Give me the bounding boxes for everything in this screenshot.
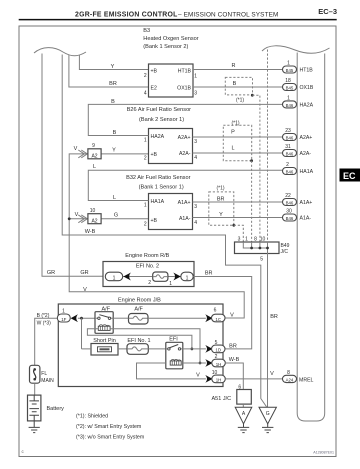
left harness break (wavy) <box>34 48 86 56</box>
svg-text:10: 10 <box>90 208 96 214</box>
svg-text:E2: E2 <box>151 86 157 92</box>
svg-text:1: 1 <box>144 138 147 144</box>
svg-text:MREL: MREL <box>299 377 314 383</box>
svg-text:BR: BR <box>217 196 225 202</box>
node junction V branch <box>68 217 71 220</box>
svg-text:1H: 1H <box>216 362 222 367</box>
svg-text:4: 4 <box>194 220 197 226</box>
svg-text:HA1A: HA1A <box>151 199 165 205</box>
svg-text:6: 6 <box>214 307 217 313</box>
wire EFI coil right to 1H pin2 <box>183 362 206 364</box>
svg-text:A2A+: A2A+ <box>300 135 313 141</box>
svg-text:HT1B: HT1B <box>300 68 314 74</box>
svg-text:B32 Air Fuel Ratio Sensor: B32 Air Fuel Ratio Sensor <box>126 175 190 181</box>
wire A/F fuse to 1C <box>148 317 206 319</box>
svg-text:– EMISSION CONTROL SYSTEM: – EMISSION CONTROL SYSTEM <box>178 12 278 19</box>
wire B OX1B to ECM <box>193 86 283 88</box>
EFI relay switch stubs <box>166 348 183 350</box>
svg-text:Engine Room R/B: Engine Room R/B <box>125 253 169 259</box>
svg-text:B46: B46 <box>286 200 294 205</box>
wire row2 relay to 1D <box>183 348 206 350</box>
fuse EFI No.1 <box>127 344 148 355</box>
sensor B26 box <box>149 129 193 164</box>
wire A/F coil left to row2 junction <box>87 329 191 349</box>
A/F relay switch stubs <box>95 317 113 319</box>
EFI relay coil <box>170 359 181 365</box>
wire A/F coil right to W-B node <box>110 329 200 363</box>
svg-text:10: 10 <box>260 237 266 243</box>
svg-text:8: 8 <box>254 237 257 243</box>
svg-text:A2A+: A2A+ <box>178 135 191 141</box>
J/B connector 1D <box>212 340 226 353</box>
fuse A/F <box>129 314 149 325</box>
svg-text:+B: +B <box>151 152 158 158</box>
A/F relay switch <box>98 315 111 320</box>
svg-text:HA2A: HA2A <box>300 102 314 108</box>
svg-text:B3: B3 <box>143 28 150 34</box>
connector A2 pin 9 <box>88 143 101 159</box>
svg-text:GR: GR <box>80 270 88 276</box>
svg-text:V: V <box>74 146 78 152</box>
svg-text:1: 1 <box>186 276 189 282</box>
battery feed wire into 1F <box>35 318 58 365</box>
1F terminal arrow <box>71 314 78 322</box>
svg-text:OX1B: OX1B <box>300 85 314 91</box>
svg-text:L: L <box>113 195 116 201</box>
wire L HA1A U-route to ECM <box>88 170 282 200</box>
svg-text:P: P <box>231 129 235 135</box>
svg-text:B45: B45 <box>286 85 294 90</box>
connector B46 pin 23 A2A+ <box>283 128 313 141</box>
svg-text:BR: BR <box>205 271 213 277</box>
svg-text:L: L <box>231 146 234 152</box>
node row2 junction <box>191 348 194 351</box>
svg-text:2: 2 <box>144 222 147 228</box>
EFI relay switch <box>168 345 181 351</box>
connector B45 pin 18 OX1B <box>283 78 314 91</box>
J/C bus node pin10 <box>266 247 269 250</box>
svg-text:GR: GR <box>47 270 55 276</box>
fusible link FL MAIN <box>30 365 40 383</box>
svg-text:B (*2): B (*2) <box>37 313 50 319</box>
wire R HT1B to ECM <box>193 69 283 71</box>
node W-B junction <box>199 362 202 365</box>
svg-text:10: 10 <box>212 370 218 376</box>
connector B46 pin 30 A1A- <box>283 209 312 222</box>
R/B left connector 1 <box>105 272 122 281</box>
svg-text:B46: B46 <box>286 151 294 156</box>
Engine Room J/B box <box>58 304 223 387</box>
svg-text:1H: 1H <box>216 378 222 383</box>
svg-text:Heated Oxgen Sensor: Heated Oxgen Sensor <box>143 36 198 42</box>
svg-text:Short Pin: Short Pin <box>93 338 116 344</box>
svg-text:(Bank 1 Sensor 1): (Bank 1 Sensor 1) <box>139 184 184 190</box>
svg-text:1: 1 <box>245 237 248 243</box>
svg-text:A128087E01: A128087E01 <box>313 451 334 455</box>
svg-text:HT1B: HT1B <box>178 68 192 74</box>
1H pin2 terminal arrow <box>205 359 212 367</box>
J/B connector 1F <box>57 309 70 322</box>
svg-text:BR: BR <box>229 343 237 349</box>
wire EFI coil left loop to 1H pin10 <box>137 363 206 379</box>
connector B45 pin 1 HT1B <box>283 61 314 74</box>
svg-text:MAIN: MAIN <box>41 378 54 384</box>
svg-text:8: 8 <box>287 370 290 376</box>
svg-text:3: 3 <box>238 237 241 243</box>
connector B46 pin 2 HA1A <box>283 162 314 175</box>
svg-text:G: G <box>266 411 270 417</box>
row2 wire segments <box>82 348 128 350</box>
svg-text:A51 J/C: A51 J/C <box>212 396 232 402</box>
wire BR A1A+ to ECM <box>193 201 283 203</box>
svg-text:1: 1 <box>287 95 290 101</box>
connector B46 pin 1 HA2A <box>283 95 314 108</box>
shield box around A2A wires <box>223 125 251 160</box>
svg-text:2: 2 <box>144 156 147 162</box>
wire Y from break to B3 pin +B <box>79 55 148 70</box>
battery ground <box>29 421 40 433</box>
J/B connector 1C <box>212 307 226 322</box>
svg-text:1C: 1C <box>215 317 221 322</box>
svg-text:V: V <box>75 212 79 218</box>
EC side tab <box>340 169 360 182</box>
fuse EFI No.2 <box>153 272 168 281</box>
relay EFI box <box>166 342 183 369</box>
wire V net: from J/B 1C up and across to A2 connectors <box>69 154 244 318</box>
1H pin10 terminal arrow <box>205 375 212 383</box>
svg-text:(*1): (*1) <box>231 121 239 127</box>
shield drain wire to J/C pin 8 <box>252 95 260 242</box>
svg-text:R: R <box>232 63 236 69</box>
wire BR from R/B down to J/B 1D <box>193 277 252 349</box>
svg-text:(Bank 1 Sensor 2): (Bank 1 Sensor 2) <box>143 44 188 50</box>
R/B left terminal arrow <box>123 273 130 281</box>
shield box around A1A wires <box>209 192 234 225</box>
svg-text:4: 4 <box>144 90 147 96</box>
svg-text:J/C: J/C <box>281 249 289 255</box>
svg-text:5: 5 <box>260 257 263 263</box>
B32 shield drain node <box>232 224 235 227</box>
svg-text:A2A-: A2A- <box>179 151 191 157</box>
svg-text:A1A-: A1A- <box>300 216 312 222</box>
svg-text:4: 4 <box>194 155 197 161</box>
svg-text:G: G <box>114 213 118 219</box>
sensor B3 box <box>149 64 194 97</box>
wire BR from break to B3 pin E2 <box>69 55 149 87</box>
svg-text:W-B: W-B <box>229 357 240 363</box>
shield drain node <box>251 94 254 97</box>
svg-text:A2A-: A2A- <box>300 151 312 157</box>
svg-text:3: 3 <box>194 139 197 145</box>
svg-text:V: V <box>230 313 234 319</box>
A/F relay coil <box>98 325 110 331</box>
ground A symbol <box>238 424 249 433</box>
Engine Room R/B box <box>103 262 194 287</box>
svg-text:B: B <box>233 81 237 87</box>
junction connector B49 J/C box <box>235 242 280 254</box>
svg-text:Engine Room J/B: Engine Room J/B <box>118 297 161 303</box>
wire GR vertical from break to Engine Room R/B input <box>42 54 106 277</box>
svg-text:(*3): w/o Smart Entry System: (*3): w/o Smart Entry System <box>76 434 145 440</box>
wire W-B net: from break down, under B32, to right, down to ground G <box>62 55 266 407</box>
svg-text:5: 5 <box>215 340 218 346</box>
svg-text:B46: B46 <box>286 103 294 108</box>
svg-text:9: 9 <box>92 143 95 149</box>
ECM outline box <box>297 53 325 422</box>
svg-text:A1A+: A1A+ <box>178 200 191 206</box>
svg-text:EFI No. 2: EFI No. 2 <box>136 264 159 270</box>
svg-text:Y: Y <box>111 64 115 70</box>
svg-text:(*1): Shielded: (*1): Shielded <box>76 414 108 420</box>
svg-text:(*1): (*1) <box>216 186 224 192</box>
svg-text:+B: +B <box>151 218 158 224</box>
svg-text:3: 3 <box>194 204 197 210</box>
svg-text:1: 1 <box>194 74 197 80</box>
wire FL to battery <box>34 383 36 395</box>
svg-text:+B: +B <box>151 68 158 74</box>
wire V 1H10 to ECM A24 MREL <box>225 378 282 380</box>
svg-text:2: 2 <box>144 73 147 79</box>
wire A51 to ground A <box>242 404 244 407</box>
B32 shield drain to J/C pin 3 <box>234 225 244 242</box>
wire L A2A- to ECM <box>193 152 283 154</box>
wire J/C pin5 to ground G <box>267 254 269 408</box>
svg-text:B46: B46 <box>286 216 294 221</box>
svg-text:A1A+: A1A+ <box>300 200 313 206</box>
svg-text:A/F: A/F <box>134 307 143 313</box>
svg-text:2: 2 <box>286 162 289 168</box>
svg-text:B: B <box>113 130 117 136</box>
svg-text:2GR-FE EMISSION CONTROL: 2GR-FE EMISSION CONTROL <box>75 12 178 19</box>
svg-text:1: 1 <box>62 309 65 315</box>
svg-text:OX1B: OX1B <box>177 86 191 92</box>
ground G symbol <box>262 424 273 433</box>
header rule <box>19 19 337 21</box>
svg-text:31: 31 <box>285 144 291 150</box>
svg-text:2: 2 <box>148 280 151 286</box>
svg-text:V: V <box>196 372 200 378</box>
J/C internal bus <box>243 242 267 254</box>
wire Y A1A- to ECM <box>193 217 283 219</box>
svg-text:A2: A2 <box>91 153 97 159</box>
svg-text:(Bank 2 Sensor 1): (Bank 2 Sensor 1) <box>139 117 184 123</box>
svg-text:1D: 1D <box>215 348 221 353</box>
1D terminal arrow <box>205 345 212 353</box>
B26 shield drain to J/C pin 1 <box>251 161 253 242</box>
svg-text:(*1): (*1) <box>236 98 244 104</box>
wire V branch to A2 pin10 row (B32 +B) <box>69 218 148 220</box>
shield box around OX1B wire <box>225 77 252 95</box>
connector A24 MREL <box>283 370 314 384</box>
svg-text:B26 Air Fuel Ratio Sensor: B26 Air Fuel Ratio Sensor <box>127 107 191 113</box>
wire B HA2A U-route to ECM <box>88 104 282 135</box>
sensor B32 box <box>149 194 193 230</box>
svg-text:B46: B46 <box>286 135 294 140</box>
svg-text:L: L <box>93 164 96 170</box>
svg-text:V: V <box>270 371 274 377</box>
svg-text:1: 1 <box>144 203 147 209</box>
svg-text:A2: A2 <box>91 218 97 224</box>
ground G triangle <box>259 407 276 424</box>
relay A/F box <box>95 312 113 334</box>
ground A triangle <box>235 407 252 424</box>
R/B internal wire <box>120 276 182 278</box>
branch down to row2 <box>81 318 83 349</box>
svg-text:1F: 1F <box>61 317 66 322</box>
svg-text:EC–3: EC–3 <box>318 7 337 16</box>
wire P A2A+ to ECM <box>193 136 283 138</box>
connector chevron before A2 pin10 <box>78 215 87 223</box>
R/B right terminal arrow <box>173 273 181 281</box>
svg-text:FL: FL <box>41 371 47 377</box>
svg-text:(*2): w/ Smart Entry System: (*2): w/ Smart Entry System <box>76 424 142 430</box>
svg-text:EFI No. 1: EFI No. 1 <box>127 338 150 344</box>
wire EFI No.1 fuse to EFI relay <box>148 348 166 350</box>
svg-text:A24: A24 <box>286 377 294 382</box>
connector chevron before A2 pin9 <box>78 150 87 158</box>
J/C bus node pin1 <box>250 247 253 250</box>
svg-text:HA2A: HA2A <box>151 134 165 140</box>
connector B46 pin 31 A2A- <box>283 144 312 157</box>
wire W-B 1H2 to A51 J/C <box>225 363 243 390</box>
wire relay to A/F fuse <box>113 317 128 319</box>
svg-text:Battery: Battery <box>47 406 65 412</box>
battery <box>28 395 41 421</box>
J/B connector 1H pin10 <box>212 370 226 383</box>
svg-text:W-B: W-B <box>85 229 96 235</box>
R/B right connector 1 <box>181 272 193 281</box>
svg-text:B45: B45 <box>286 68 294 73</box>
node 1F branch <box>80 317 83 320</box>
1C terminal arrow <box>205 314 212 322</box>
svg-text:B46: B46 <box>286 169 294 174</box>
svg-text:B: B <box>111 99 115 105</box>
ECM harness break (wavy) <box>262 46 330 54</box>
svg-text:BR: BR <box>270 314 278 320</box>
svg-text:BR: BR <box>109 81 117 87</box>
svg-text:22: 22 <box>285 193 291 199</box>
svg-text:V: V <box>83 287 87 293</box>
J/C bus node pin8 <box>259 247 262 250</box>
svg-text:1: 1 <box>113 276 116 282</box>
svg-text:3: 3 <box>194 91 197 97</box>
svg-text:1: 1 <box>287 61 290 67</box>
short pin box <box>91 344 118 356</box>
svg-text:1: 1 <box>169 281 172 287</box>
J/B row1 wire 1F to A/F relay <box>78 317 95 319</box>
svg-text:23: 23 <box>285 128 291 134</box>
connector A2 pin 10 <box>88 208 101 224</box>
svg-text:2: 2 <box>215 354 218 360</box>
junction connector A51 J/C box <box>237 390 252 405</box>
svg-text:30: 30 <box>286 209 292 215</box>
connector B46 pin 22 A1A+ <box>283 193 313 206</box>
svg-text:W (*3): W (*3) <box>37 321 52 327</box>
shield drain trunk from top break to J/C pin 10 <box>267 50 269 243</box>
svg-text:A1A-: A1A- <box>179 216 191 222</box>
svg-text:EC: EC <box>343 171 356 181</box>
svg-text:HA1A: HA1A <box>300 169 314 175</box>
J/B connector 1H pin2 <box>212 354 226 367</box>
svg-text:18: 18 <box>285 78 291 84</box>
B26 shield drain node <box>250 159 253 162</box>
svg-text:Y: Y <box>219 212 223 218</box>
svg-text:Y: Y <box>112 148 116 154</box>
